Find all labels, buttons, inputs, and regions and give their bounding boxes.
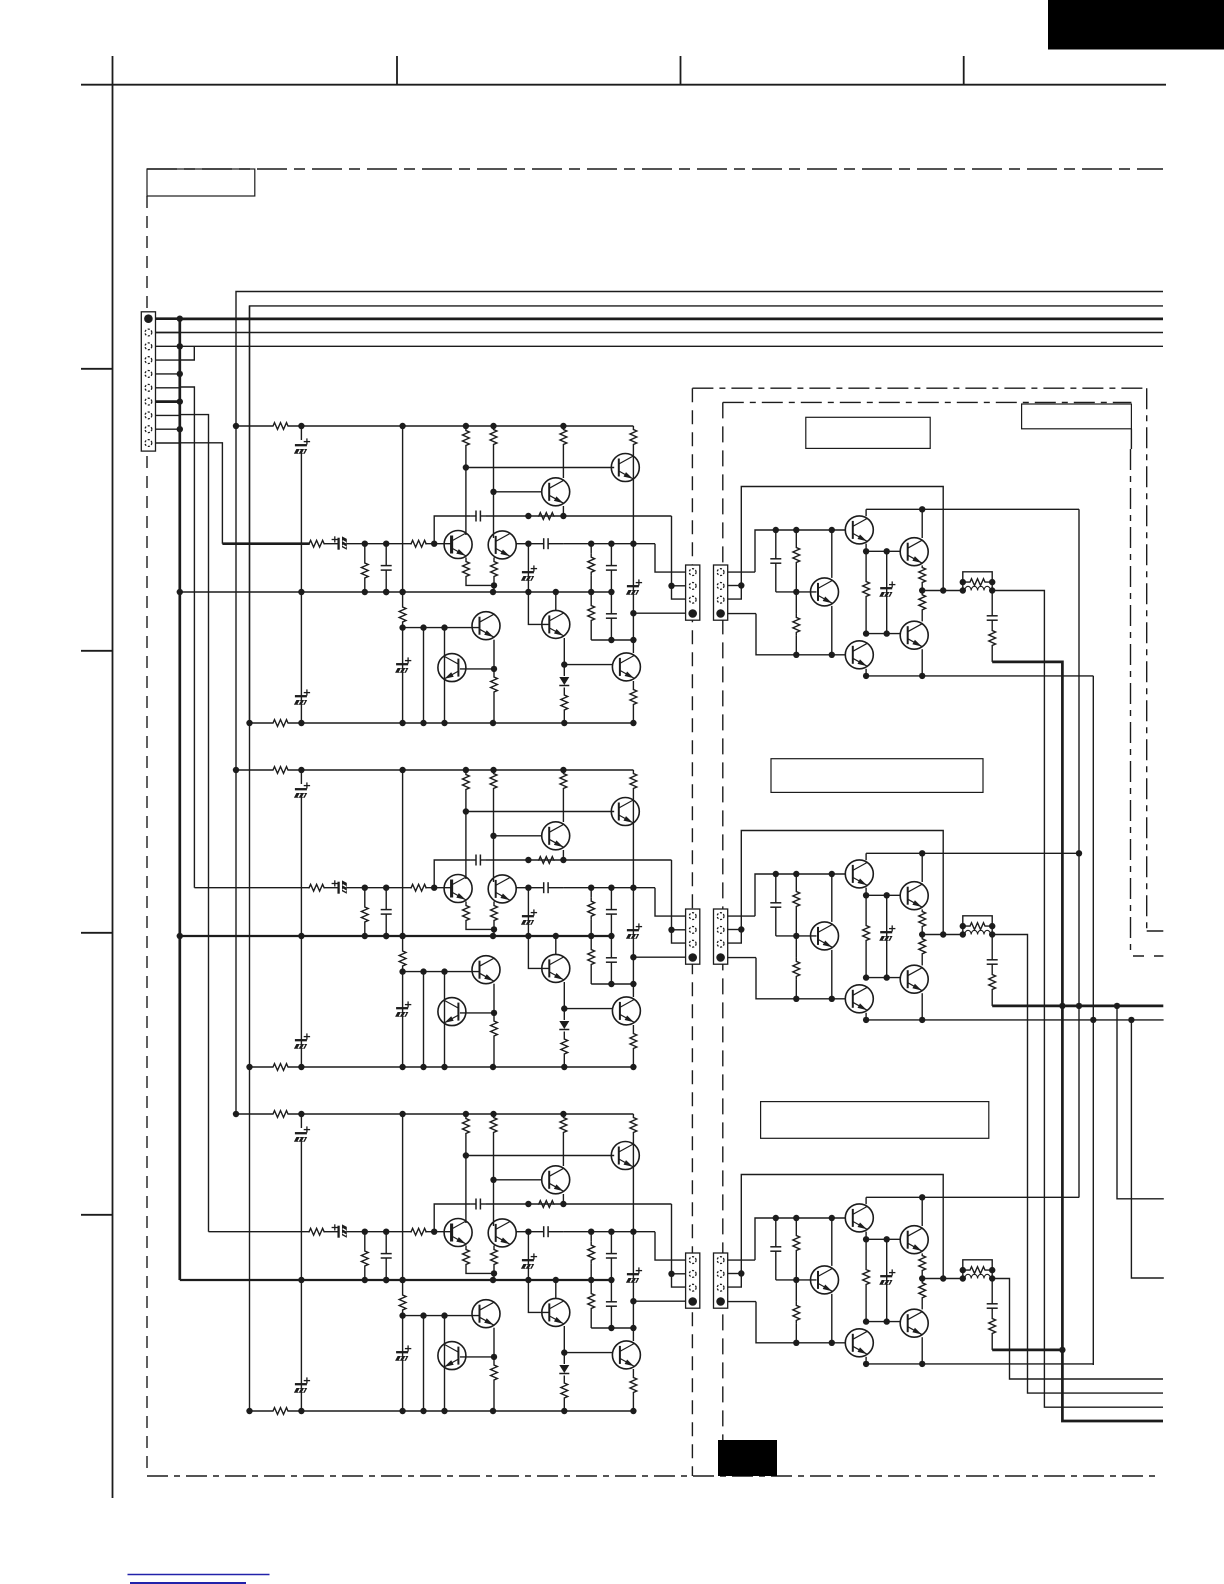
border tick top 3 (963, 56, 965, 85)
wire pin4 jog (180, 346, 195, 360)
wire drop R12 C (423, 1316, 425, 1411)
junction T1 base B (463, 808, 469, 814)
dashed boundary right-board inner left edge (722, 402, 724, 1476)
wire mid line D (866, 508, 1079, 510)
junction upper base line D (773, 527, 779, 533)
resistor R24 emitter D (919, 591, 926, 615)
dashed boundary right-board top edge (692, 387, 1146, 389)
junction dots top rail C (233, 1111, 239, 1117)
wire top loop D (741, 487, 943, 591)
wire CN101 pin 6 (156, 387, 180, 389)
border tick left 1 (81, 368, 113, 370)
wire CN101 ground bus (178, 319, 181, 1280)
vertical feed V1 rails (235, 426, 237, 1114)
junction T5-T6 C (491, 1354, 497, 1360)
wire to connector pins2-3 C (672, 1204, 686, 1287)
resistor R22 E (865, 895, 867, 922)
transistor Q20E (845, 860, 873, 888)
transistor Q2B (542, 822, 570, 850)
resistor R26 zobel F (989, 1314, 996, 1338)
dashed boundary top edge (147, 168, 1163, 170)
junction dots bottom rail B (246, 1064, 252, 1070)
transistor Q8A (612, 653, 640, 681)
wire T5 emitter C (493, 1328, 495, 1357)
resistor R4 A (463, 426, 470, 450)
transistor Q1A (611, 454, 639, 482)
wire T7 emitter B (563, 982, 565, 1009)
dashed boundary right-board outer right edge (1146, 388, 1148, 930)
electrolytic C9 A (527, 544, 529, 592)
bus line pin1 signal (180, 318, 1163, 321)
capacitor C22 zobel D (991, 591, 993, 611)
wire C5 line A (486, 515, 672, 517)
wire pin4 route F (756, 1302, 846, 1343)
junction dots top rail A (233, 423, 239, 429)
resistor R6 C (560, 1114, 567, 1136)
junction input line C (630, 1229, 636, 1235)
transistor Q1C (611, 1142, 639, 1170)
wire CN222 pin4 (728, 957, 756, 959)
junction bias A (525, 541, 531, 547)
wire lower bias line C (591, 1327, 633, 1329)
wire bias line A (563, 543, 655, 545)
electrolytic C7 B (627, 929, 639, 931)
junction pin2 wire A (668, 583, 674, 589)
transistor Q6C (438, 1342, 466, 1370)
wire pin1 riser F (755, 1218, 846, 1260)
wire T8 base line A (564, 664, 613, 666)
wire T3 collector A (465, 468, 467, 536)
resistor R15 B (632, 1025, 634, 1031)
wire top loop E (741, 831, 943, 935)
wire T3 collector C (465, 1156, 467, 1224)
resistor R4 B (463, 770, 470, 794)
wire to connector pin1 A (655, 544, 686, 572)
diode D1 B (563, 1009, 565, 1020)
wire T3 emitter join A (466, 578, 494, 585)
dashed boundary right-board inner right edge (1130, 449, 1132, 956)
resistor R3 series B (411, 884, 426, 891)
resistor R5 B (490, 770, 497, 792)
junction lower base line E (793, 996, 799, 1002)
resistor R15 C (632, 1369, 634, 1375)
electrolytic C21 D (886, 551, 888, 633)
resistor R16 T3 emitter C (465, 1246, 467, 1249)
junction T3-T4 emitters A (491, 582, 497, 588)
wire C5 line B (486, 859, 672, 861)
wire to connector pin1 B (655, 888, 686, 916)
wire Q5 emitter stub D (865, 669, 867, 676)
capacitor C4 to ground B (385, 888, 387, 910)
resistor R8 series A (539, 513, 554, 520)
resistor R13 B (491, 1013, 498, 1044)
junction bias C (525, 1229, 531, 1235)
wire T3 emitter join B (466, 922, 494, 929)
wire row2 bold line (992, 1005, 1163, 1008)
electrolytic C2 B (295, 1039, 307, 1041)
electrolytic C7 C (627, 1273, 639, 1275)
page border top rule (81, 84, 1166, 86)
supply rail top block A (236, 425, 272, 427)
wire mid line E (866, 852, 1079, 854)
transistor Q5A (472, 612, 500, 640)
output line D (922, 590, 963, 592)
electrolytic C1 C (300, 1114, 302, 1128)
resistor R17 T4 emitter C (493, 1246, 495, 1249)
junction inner base line upper F (863, 1236, 869, 1242)
wire T7 collector C (555, 1280, 557, 1299)
transistor Q21F (900, 1226, 928, 1254)
junction T5 base line B (420, 968, 426, 974)
wire bias vertical F (831, 1218, 833, 1266)
resistor R9 A (590, 544, 592, 554)
electrolytic C11 input coupling B (337, 882, 339, 894)
wire CN101 pin 10 (156, 442, 180, 444)
wire output to pin4 B (633, 956, 685, 958)
wire T3 collector B (465, 812, 467, 880)
capacitor C4 to ground C (385, 1232, 387, 1254)
junction C5 line B (525, 857, 531, 863)
wire CN101 pin 3 (156, 345, 180, 347)
electrolytic C11 input coupling A (337, 538, 339, 550)
wire T5 base line A (403, 627, 480, 629)
dashed boundary bottom edge (147, 1475, 1157, 1477)
wire T3 emitter join C (466, 1266, 494, 1273)
junction R25 E (960, 923, 966, 929)
transistor Q2A (542, 478, 570, 506)
resistor R8 series B (539, 857, 554, 864)
junction input line B (630, 885, 636, 891)
junction T1 base C (463, 1152, 469, 1158)
junction C4 ground C (383, 1277, 389, 1283)
resistor R25 damping E (963, 916, 992, 935)
wire CN101 pin 7 (156, 400, 180, 403)
junction upper base line F (773, 1215, 779, 1221)
junction input R-C B (362, 885, 368, 891)
bus line pin3 signal (180, 345, 1163, 347)
resistor R11 below rail A (590, 592, 592, 602)
junction driver base F (793, 1277, 799, 1283)
wire T8 base line C (564, 1352, 613, 1354)
wire Q2 collector stub D (921, 509, 923, 538)
capacitor C6 C (528, 1231, 543, 1233)
junction R25 F (960, 1267, 966, 1273)
wire loop to C5 B (434, 860, 470, 888)
wire T5 base line B (403, 971, 480, 973)
wire T1 base line B (466, 811, 614, 813)
resistor R8 series C (539, 1201, 554, 1208)
resistor R24 emitter E (919, 935, 926, 959)
wire T5 base line C (403, 1315, 480, 1317)
label box row3 (761, 1102, 989, 1139)
hyperlink underline 2 (130, 1582, 246, 1584)
supply rail top block B (236, 769, 272, 771)
junction driver base E (793, 933, 799, 939)
wire T2 base line C (494, 1179, 543, 1181)
junction input line A (630, 541, 636, 547)
capacitor C10 below rail C (610, 1280, 612, 1302)
wire row1 mid drop (1078, 509, 1080, 1197)
wire Q top collector stub E (865, 853, 867, 860)
wire drop x1131 (1131, 1020, 1163, 1278)
junction driver base D (793, 589, 799, 595)
resistor R7 A (630, 426, 637, 448)
resistor R7 B (630, 770, 637, 792)
resistor R16 T3 emitter B (465, 902, 467, 905)
wire Q top collector stub D (865, 509, 867, 516)
label box top-left (147, 169, 255, 196)
wire pin1 riser E (755, 874, 846, 916)
wire T7 base B (528, 936, 548, 968)
junction T7 emitter B (561, 1005, 567, 1011)
electrolytic C3 C (402, 1316, 404, 1411)
junction on ground bus (177, 426, 183, 432)
transistor Q20F (845, 1204, 873, 1232)
transistor Q22D (811, 578, 839, 606)
wire output row1 drop (992, 591, 1163, 1408)
capacitor C22 zobel F (991, 1279, 993, 1299)
connector CN231 (686, 1253, 700, 1308)
junction R25 D (960, 579, 966, 585)
resistor R26 zobel E (989, 970, 996, 994)
border tick left 3 (81, 932, 113, 934)
resistor R25 damping D (963, 572, 992, 591)
capacitor C5 B (470, 859, 476, 861)
capacitor C5 C (470, 1203, 476, 1205)
transistor Q2C (542, 1166, 570, 1194)
dashed boundary left edge (146, 196, 148, 1476)
wire T4 emitter line A (517, 543, 529, 545)
diode D1 C (563, 1353, 565, 1364)
transistor Q21D (900, 538, 928, 566)
electrolytic C3 A (402, 628, 404, 723)
wire to connector pin1 C (655, 1232, 686, 1260)
dashed boundary right-board inner top edge (723, 401, 1132, 403)
wire T4 base drop B (493, 836, 495, 882)
capacitor C8 B (610, 888, 612, 910)
junction T5 base line A (420, 624, 426, 630)
junction L1 D (960, 587, 966, 593)
junction C4 ground B (383, 933, 389, 939)
junction T2 base C (490, 1177, 496, 1183)
label box right row1a (806, 417, 930, 448)
resistor R5 A (490, 426, 497, 448)
junction pin2 wire B (668, 927, 674, 933)
junction C5 line A (525, 513, 531, 519)
capacitor C20 F (775, 1218, 777, 1247)
junction on ground bus (177, 343, 183, 349)
dashed boundary mid-left edge (691, 388, 693, 1476)
junction output node A (630, 610, 636, 616)
electrolytic C1 A (300, 426, 302, 440)
transistor Q7B (542, 954, 570, 982)
transistor Q1B (611, 798, 639, 826)
electrolytic C7 A (627, 585, 639, 587)
junction mid line D (919, 506, 925, 512)
resistor R3 series A (411, 540, 426, 547)
wire Q4 emitter stub F (921, 1337, 923, 1364)
junction inner base line upper D (863, 548, 869, 554)
hyperlink underline (128, 1574, 270, 1576)
input line C (209, 1231, 310, 1233)
junctions row2 bold line (1059, 1003, 1065, 1009)
wire CN212 pin2-3 tie (728, 586, 742, 600)
connector CN232 (714, 1253, 728, 1308)
junction mid line F (919, 1194, 925, 1200)
wire Q5 emitter stub E (865, 1013, 867, 1020)
wire T5 emitter B (493, 984, 495, 1013)
bottom line E (866, 1019, 1093, 1021)
wire drop x1117 (1117, 1006, 1164, 1199)
electrolytic C9 C (527, 1232, 529, 1280)
wire pin4 route D (756, 614, 846, 655)
junction on ground bus (177, 371, 183, 377)
wire drop R12 B (423, 972, 425, 1067)
wire output to pin4 A (633, 612, 685, 614)
transistor Q4B (488, 875, 516, 903)
capacitor C20 D (775, 530, 777, 559)
wire T6 collector link C (460, 1356, 494, 1358)
junction pin tie row 1 (738, 582, 744, 588)
bottom rail A (250, 722, 272, 724)
junction T3-T4 emitters B (491, 926, 497, 932)
resistor R26 zobel D (989, 626, 996, 650)
resistor R7 C (630, 1114, 637, 1136)
wire mid line F (866, 1196, 1079, 1198)
feedback rail A (180, 591, 612, 593)
capacitor C20 E (775, 874, 777, 903)
junction inner base line lower E (863, 974, 869, 980)
wire CN222 pin2-3 tie (728, 930, 742, 944)
wire CN101 pin 2 (156, 332, 180, 334)
bottom line F (866, 1363, 1093, 1365)
wire bias line C (563, 1231, 655, 1233)
resistor R22 F (865, 1239, 867, 1266)
wire T2 emitter C (562, 1194, 564, 1204)
black marker bottom (718, 1440, 777, 1476)
border tick top 2 (680, 56, 682, 85)
wire CN222 pin1 (728, 915, 755, 917)
wire T7 emitter A (563, 638, 565, 665)
wire T6 collector link B (460, 1012, 494, 1014)
junction pin tie row 2 (738, 926, 744, 932)
resistor R2 to ground C (364, 1232, 366, 1250)
junction bias B (525, 885, 531, 891)
transistor Q3A (444, 531, 472, 559)
wire T6 collector link A (460, 668, 494, 670)
resistor R2 to ground A (364, 544, 366, 562)
junction C base line (399, 1312, 405, 1318)
junction T3 base node B (431, 885, 437, 891)
resistor R13 C (491, 1357, 498, 1388)
junction output node C (630, 1298, 636, 1304)
junction bias verticals C (588, 1229, 594, 1235)
junction T2 base A (490, 489, 496, 495)
connector CN101 (141, 312, 155, 451)
resistor R9 C (590, 1232, 592, 1242)
capacitor C8 A (610, 544, 612, 566)
wire C20 to driver base D (776, 591, 817, 593)
wire T7 emitter C (563, 1326, 565, 1353)
wire bias vertical E (831, 874, 833, 922)
junction drive node D (940, 587, 946, 593)
capacitor C6 B (528, 887, 543, 889)
transistor Q6B (438, 998, 466, 1026)
junction dots bottom rail C (246, 1408, 252, 1414)
junction pin tie row 3 (738, 1270, 744, 1276)
resistor R10 vertical chain A (402, 426, 404, 604)
wire T6 base vertical C (444, 1316, 446, 1411)
resistor R11 below rail B (590, 936, 592, 946)
junction output node B (630, 954, 636, 960)
wire output row2 drop (992, 935, 1163, 1394)
electrolytic C3 B (402, 972, 404, 1067)
wire lower bias line B (591, 983, 633, 985)
wire Q5 emitter stub F (865, 1357, 867, 1364)
wire inner base line lower D (866, 633, 900, 635)
bus line pin2 signal (156, 332, 1164, 334)
wire pin1 riser D (755, 530, 846, 572)
wire lower bias line A (591, 639, 633, 641)
junction bottom line D (863, 673, 869, 679)
transistor Q21E (900, 882, 928, 910)
wire loop to C5 C (434, 1204, 470, 1232)
transistor Q6A (438, 654, 466, 682)
wire label box edge (1130, 429, 1132, 449)
capacitor C22 zobel E (991, 935, 993, 955)
junction inner base line lower F (863, 1318, 869, 1324)
wire inner base line lower E (866, 977, 900, 979)
transistor Q3B (444, 875, 472, 903)
capacitor C4 to ground A (385, 544, 387, 566)
resistor R9 B (590, 888, 592, 898)
electrolytic C21 E (886, 895, 888, 977)
wire inner base line lower F (866, 1321, 900, 1323)
feedback rail C (180, 1279, 612, 1281)
wire pin10 drop to block A input (180, 443, 223, 544)
wire T7 collector B (555, 936, 557, 955)
junction pin2 wire C (668, 1271, 674, 1277)
wire to connector pins2-3 A (672, 516, 686, 599)
junction T7 collector B (553, 933, 559, 939)
resistor R10 vertical chain C (402, 1114, 404, 1292)
junction row2 mid (1076, 850, 1082, 856)
wire Q2 collector stub F (921, 1197, 923, 1226)
transistor Q5C (472, 1300, 500, 1328)
wire T4 emitter line B (517, 887, 529, 889)
wire CN232 pin1 (728, 1259, 755, 1261)
wire emitter chain upper D (865, 544, 867, 552)
resistor R10 vertical chain B (402, 770, 404, 948)
wire T7 base C (528, 1280, 548, 1312)
wire loop to C5 A (434, 516, 470, 544)
wire C20 to driver base F (776, 1279, 817, 1281)
resistor R16 T3 emitter A (465, 558, 467, 561)
wire T6 base vertical A (444, 628, 446, 723)
junction lower bias C (608, 1325, 614, 1331)
transistor Q24D (845, 641, 873, 669)
wire inner base line upper F (866, 1238, 900, 1240)
resistor R22 D (865, 551, 867, 578)
wire T2 base line A (494, 491, 543, 493)
wire Q4 emitter stub D (921, 649, 923, 676)
resistor R14 B (561, 1037, 568, 1056)
wire emitter chain upper E (865, 888, 867, 896)
wire CN101 pin 1 (156, 317, 180, 320)
resistor R17 T4 emitter A (493, 558, 495, 561)
junction bottom line E (863, 1017, 869, 1023)
transistor Q8C (612, 1341, 640, 1369)
